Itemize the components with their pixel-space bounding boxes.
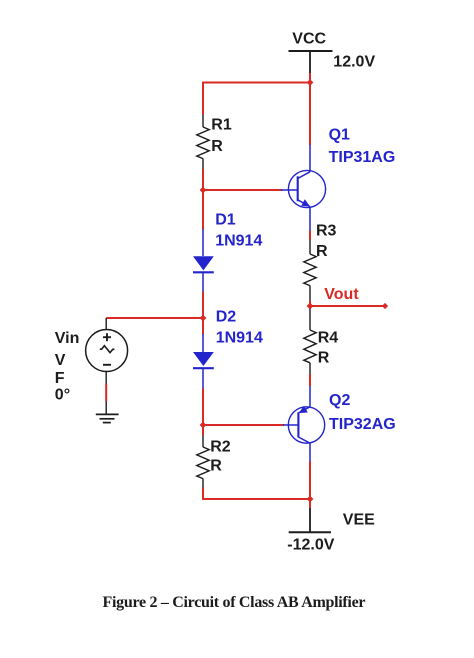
svg-text:Figure 2 – Circuit of Class AB: Figure 2 – Circuit of Class AB Amplifier [103, 594, 366, 611]
wire VCC stem to rail [309, 73, 311, 83]
wire R4 to Q2 emitter [309, 374, 311, 386]
svg-text:1N914: 1N914 [216, 329, 263, 346]
svg-text:Q2: Q2 [329, 392, 350, 409]
resistor R3 [304, 240, 316, 302]
wire Q2 collector to node D [309, 462, 311, 500]
wire R2 to bottom rail [202, 488, 204, 500]
wire node B drop to D2 [202, 318, 204, 335]
wire Vin lower lead [105, 384, 107, 402]
node Vout junction dot [307, 303, 314, 310]
resistor R2 [197, 435, 209, 488]
svg-text:D1: D1 [215, 212, 236, 229]
svg-text:V: V [55, 352, 66, 369]
svg-text:1N914: 1N914 [215, 233, 262, 250]
wire right drop to Q1 collector [309, 83, 311, 146]
svg-text:VEE: VEE [343, 511, 375, 528]
svg-text:D2: D2 [216, 308, 237, 325]
wire node C to Q2 base [203, 424, 284, 426]
svg-text:12.0V: 12.0V [333, 53, 375, 70]
diode D1 [193, 229, 214, 292]
wire top rail [202, 82, 310, 84]
svg-text:R2: R2 [210, 439, 231, 456]
wire R1 to node A [202, 169, 204, 191]
svg-text:F: F [55, 370, 65, 387]
svg-text:Q1: Q1 [329, 126, 350, 143]
resistor R1 [197, 115, 209, 170]
svg-text:TIP31AG: TIP31AG [329, 149, 396, 166]
wire bottom rail [202, 498, 310, 500]
wire R3 to node Vout [309, 301, 311, 309]
node A junction dot [200, 187, 207, 194]
ground [96, 401, 119, 423]
svg-text:-12.0V: -12.0V [287, 537, 334, 554]
wire D2 to node C [202, 389, 204, 426]
source Vin (AC source) [86, 318, 128, 384]
node D junction dot [307, 496, 314, 503]
wire D1 to node B [202, 292, 204, 319]
node Vout endpoint dot [382, 303, 388, 309]
svg-text:R: R [210, 458, 222, 475]
wire node B to Vin [106, 317, 203, 319]
wire node A drop to D1 [202, 190, 204, 230]
wire node A to Q1 base [203, 189, 282, 191]
transistor Q2 [283, 386, 325, 462]
svg-text:R4: R4 [318, 330, 339, 347]
node VCC-rail junction dot [307, 79, 314, 86]
power symbol VCC [289, 51, 333, 73]
diode D2 [193, 334, 214, 389]
svg-text:R: R [318, 349, 330, 366]
resistor R4 [304, 309, 316, 374]
node C junction dot [200, 422, 207, 429]
transistor Q1 [281, 145, 326, 231]
wire Q1 emitter to R3 [309, 231, 311, 240]
wire Vout stub [310, 305, 385, 307]
svg-text:VCC: VCC [292, 31, 326, 48]
svg-text:R3: R3 [316, 223, 337, 240]
power symbol VEE [289, 508, 331, 532]
wire node D to VEE stem [309, 499, 311, 508]
svg-text:0°: 0° [55, 387, 70, 404]
svg-text:Vout: Vout [324, 286, 359, 303]
wire node C drop to R2 [202, 425, 204, 435]
svg-text:R: R [211, 138, 223, 155]
svg-text:Vin: Vin [55, 330, 80, 347]
wire left drop to R1 [202, 82, 204, 115]
svg-text:R: R [316, 243, 328, 260]
svg-text:TIP32AG: TIP32AG [329, 416, 396, 433]
node B junction dot [200, 315, 207, 322]
svg-text:R1: R1 [211, 116, 232, 133]
